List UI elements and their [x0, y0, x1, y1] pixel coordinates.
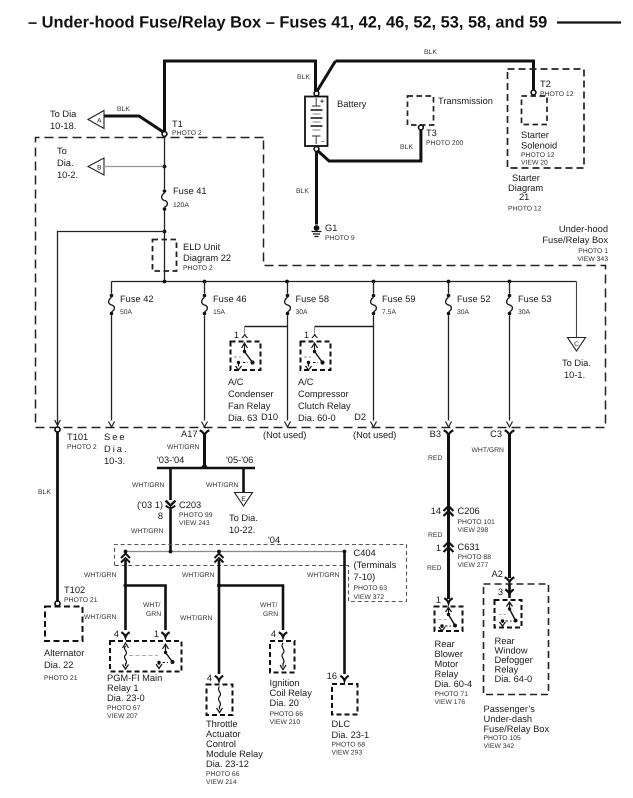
svg-text:C404: C404 — [354, 548, 376, 558]
svg-text:1: 1 — [234, 330, 239, 340]
wire: T1 down to fuse 41 — [164, 137, 166, 190]
svg-text:1: 1 — [304, 330, 309, 340]
fuse 46 — [202, 282, 247, 428]
svg-text:C631: C631 — [458, 542, 480, 552]
svg-text:PHOTO 99: PHOTO 99 — [179, 512, 213, 519]
svg-text:VIEW 277: VIEW 277 — [458, 562, 489, 569]
svg-text:PHOTO 12: PHOTO 12 — [521, 152, 555, 159]
title — [28, 14, 621, 32]
svg-text:VIEW 293: VIEW 293 — [332, 750, 363, 757]
svg-text:7.5A: 7.5A — [382, 309, 396, 316]
svg-text:C206: C206 — [458, 506, 480, 516]
node D2 — [353, 412, 396, 440]
svg-text:Passenger’s: Passenger’s — [484, 704, 536, 714]
svg-text:A: A — [97, 118, 102, 125]
svg-text:To Dia: To Dia — [50, 109, 77, 119]
svg-text:10-2.: 10-2. — [57, 170, 78, 180]
connector C206 — [431, 506, 495, 534]
svg-text:T102: T102 — [64, 585, 85, 595]
under-hood fuse/relay box dashed outline — [36, 138, 606, 428]
svg-text:WHT/: WHT/ — [143, 602, 160, 609]
svg-text:21: 21 — [519, 192, 529, 202]
svg-text:Dia. 23-0: Dia. 23-0 — [107, 693, 145, 703]
svg-text:Dia. 23-12: Dia. 23-12 — [206, 759, 249, 769]
svg-text:+: + — [320, 99, 324, 106]
svg-text:(Not used): (Not used) — [353, 430, 396, 440]
svg-text:30A: 30A — [457, 309, 470, 316]
svg-text:Fuse 52: Fuse 52 — [457, 294, 491, 304]
svg-text:PHOTO 71: PHOTO 71 — [435, 691, 469, 698]
junction node — [123, 583, 127, 587]
svg-text:A17: A17 — [181, 429, 198, 439]
svg-text:C203: C203 — [179, 500, 201, 510]
svg-text:Rear: Rear — [435, 639, 455, 649]
svg-text:1: 1 — [436, 595, 441, 605]
terminal T3 — [419, 125, 464, 147]
04 model year dashed region with C404 — [115, 535, 407, 602]
A17 split bar 03-04 / 05-06 — [157, 455, 255, 468]
terminal B3 — [428, 429, 453, 599]
svg-text:ʹ03-ʹ04: ʹ03-ʹ04 — [157, 455, 184, 465]
svg-text:B: B — [97, 165, 101, 172]
svg-text:To Dia.: To Dia. — [562, 358, 591, 368]
svg-text:VIEW 298: VIEW 298 — [458, 527, 489, 534]
svg-text:30A: 30A — [296, 309, 309, 316]
svg-text:Battery: Battery — [337, 99, 367, 109]
terminal T2 — [531, 79, 574, 98]
svg-text:PHOTO 67: PHOTO 67 — [107, 705, 141, 712]
starter diagram 21 box — [508, 69, 585, 213]
svg-text:PHOTO 200: PHOTO 200 — [426, 140, 463, 147]
wire: down to PGM pin 4 — [124, 586, 127, 631]
wire: down to throttle relay — [218, 586, 221, 675]
svg-text:50A: 50A — [120, 309, 133, 316]
wire: bus to arrow C — [576, 282, 578, 338]
svg-text:4: 4 — [114, 629, 119, 639]
throttle actuator control module relay — [206, 673, 263, 786]
svg-text:PHOTO 12: PHOTO 12 — [540, 91, 574, 98]
wire: battery negative to G1 — [315, 152, 318, 225]
arrow B To Dia 10-2 — [57, 146, 104, 180]
svg-text:4: 4 — [207, 673, 212, 683]
alternator — [44, 607, 84, 683]
svg-text:WHT/GRN: WHT/GRN — [84, 614, 117, 621]
svg-text:RED: RED — [428, 532, 442, 539]
svg-text:BLK: BLK — [38, 489, 51, 496]
svg-text:Dia. 22: Dia. 22 — [44, 660, 73, 670]
svg-text:VIEW 372: VIEW 372 — [354, 594, 385, 601]
svg-text:(ʹ03 1): (ʹ03 1) — [137, 500, 163, 510]
svg-text:A2: A2 — [492, 569, 503, 579]
wire: branch to ignition coil relay — [219, 586, 283, 631]
svg-text:To: To — [57, 146, 67, 156]
svg-text:VIEW 343: VIEW 343 — [577, 256, 608, 263]
wire: left branch 03-04 — [169, 468, 172, 500]
fuse 59 — [371, 282, 416, 428]
svg-text:Starter: Starter — [521, 130, 549, 140]
svg-text:PHOTO 66: PHOTO 66 — [206, 771, 240, 778]
under-hood fuse/relay box label — [542, 224, 608, 263]
svg-text:Alternator: Alternator — [44, 648, 84, 658]
svg-text:PGM-FI Main: PGM-FI Main — [107, 673, 162, 683]
svg-text:T1: T1 — [172, 119, 183, 129]
fuse 42 — [109, 282, 154, 428]
svg-text:PHOTO 21: PHOTO 21 — [64, 597, 98, 604]
svg-text:7-10): 7-10) — [354, 572, 376, 582]
wire: fuse bus — [112, 281, 577, 283]
svg-text:Motor: Motor — [435, 659, 459, 669]
svg-text:VIEW 214: VIEW 214 — [206, 779, 237, 786]
junction nodes on bus — [163, 280, 167, 284]
svg-text:Diagram 22: Diagram 22 — [183, 253, 231, 263]
transmission box — [408, 96, 493, 125]
svg-text:G1: G1 — [325, 223, 337, 233]
rear window defogger relay — [495, 584, 533, 684]
svg-text:Fuse 42: Fuse 42 — [120, 294, 154, 304]
terminal A17 — [167, 429, 209, 468]
svg-text:PHOTO 2: PHOTO 2 — [172, 130, 202, 137]
connector C631 — [436, 542, 491, 569]
svg-text:WHT/GRN: WHT/GRN — [472, 447, 505, 454]
svg-text:Transmission: Transmission — [438, 96, 493, 106]
fuse 52 — [446, 282, 491, 428]
junction node — [217, 583, 221, 587]
svg-text:WHT/GRN: WHT/GRN — [180, 615, 213, 622]
svg-text:WHT/GRN: WHT/GRN — [167, 444, 200, 451]
svg-text:10-18.: 10-18. — [50, 121, 76, 131]
svg-text:14: 14 — [431, 506, 441, 516]
svg-text:D2: D2 — [354, 412, 366, 422]
junction node ELD branch — [163, 230, 167, 234]
ground G1 — [312, 223, 355, 242]
svg-text:RED: RED — [428, 455, 442, 462]
svg-text:See: See — [104, 432, 127, 442]
svg-text:VIEW 176: VIEW 176 — [435, 699, 466, 706]
svg-text:BLK: BLK — [117, 106, 130, 113]
svg-text:VIEW 243: VIEW 243 — [179, 520, 210, 527]
wire: To Dia 10-18 arrow to T1 — [104, 116, 164, 133]
junction nodes on splice — [124, 550, 128, 554]
PGM-FI main relay — [107, 629, 182, 720]
wire: battery to T3 — [318, 130, 421, 161]
svg-text:10-3.: 10-3. — [104, 456, 125, 466]
svg-text:Fuse 58: Fuse 58 — [296, 294, 330, 304]
wire: branch to T101 column — [58, 232, 165, 425]
wire: splice to DLC — [343, 552, 346, 675]
svg-text:PHOTO 1: PHOTO 1 — [578, 248, 608, 255]
DLC — [327, 671, 370, 757]
svg-text:PHOTO 63: PHOTO 63 — [354, 585, 388, 592]
svg-text:ʹ05-ʹ06: ʹ05-ʹ06 — [226, 455, 253, 465]
svg-text:RED: RED — [427, 565, 441, 572]
svg-text:(Not used): (Not used) — [263, 430, 306, 440]
svg-text:Dia.: Dia. — [104, 444, 129, 454]
svg-text:1: 1 — [436, 543, 441, 553]
svg-text:Throttle: Throttle — [206, 719, 238, 729]
svg-text:WHT/: WHT/ — [260, 602, 277, 609]
svg-text:Condenser: Condenser — [228, 389, 273, 399]
svg-text:Relay 1: Relay 1 — [107, 683, 139, 693]
svg-text:8: 8 — [158, 511, 163, 521]
terminal T1 — [162, 119, 202, 137]
svg-text:T3: T3 — [426, 128, 437, 138]
svg-text:E: E — [241, 496, 246, 503]
svg-text:Coil Relay: Coil Relay — [270, 688, 313, 698]
wire: main feed T1 up and across top — [165, 61, 316, 132]
terminal C3 — [472, 429, 515, 578]
svg-text:Relay: Relay — [435, 669, 459, 679]
svg-text:Clutch Relay: Clutch Relay — [298, 401, 351, 411]
A/C condenser fan relay — [228, 327, 288, 424]
svg-text:WHT/GRN: WHT/GRN — [131, 528, 164, 535]
svg-text:ʹ04: ʹ04 — [268, 535, 280, 545]
fuse 41 — [162, 186, 207, 211]
svg-text:VIEW 20: VIEW 20 — [521, 160, 548, 167]
connector drop left (PGM-FI feed) — [84, 554, 130, 586]
svg-text:VIEW 207: VIEW 207 — [107, 713, 138, 720]
wire: gray line B to T1 line — [104, 166, 165, 168]
arrow E To Dia 10-22 — [229, 493, 258, 536]
svg-text:Control: Control — [206, 739, 236, 749]
svg-text:3: 3 — [498, 587, 503, 597]
svg-text:Module Relay: Module Relay — [206, 749, 263, 759]
svg-text:PHOTO 12: PHOTO 12 — [508, 206, 542, 213]
svg-text:Ignition: Ignition — [270, 678, 300, 688]
svg-text:D10: D10 — [261, 412, 278, 422]
svg-text:Dia. 60-4: Dia. 60-4 — [435, 679, 473, 689]
battery — [305, 91, 367, 151]
svg-text:BLK: BLK — [400, 144, 413, 151]
svg-text:To Dia.: To Dia. — [229, 513, 258, 523]
svg-text:Fan Relay: Fan Relay — [228, 401, 271, 411]
svg-text:Relay: Relay — [495, 665, 519, 675]
svg-text:Dia. 63: Dia. 63 — [228, 413, 257, 423]
svg-text:WHT/GRN: WHT/GRN — [132, 482, 165, 489]
wire: C203 down to 04 splice — [169, 509, 172, 550]
svg-text:Under-dash: Under-dash — [484, 714, 533, 724]
svg-text:PHOTO 2: PHOTO 2 — [67, 444, 97, 451]
terminal T102 — [55, 585, 98, 606]
terminal T101 — [55, 420, 97, 451]
svg-text:VIEW 210: VIEW 210 — [270, 719, 301, 726]
svg-text:Fuse/Relay Box: Fuse/Relay Box — [484, 724, 550, 734]
svg-text:Dia. 60-0: Dia. 60-0 — [298, 413, 336, 423]
svg-text:– Under-hood Fuse/Relay Box –: – Under-hood Fuse/Relay Box – Fuses 41, … — [28, 14, 547, 32]
ELD unit box — [153, 240, 232, 273]
svg-text:PHOTO 2: PHOTO 2 — [183, 265, 213, 272]
svg-text:WHT/GRN: WHT/GRN — [182, 572, 215, 579]
svg-text:C: C — [574, 341, 579, 348]
svg-text:PHOTO 66: PHOTO 66 — [270, 711, 304, 718]
svg-text:Actuator: Actuator — [206, 729, 241, 739]
svg-text:10-1.: 10-1. — [564, 370, 585, 380]
svg-text:16: 16 — [327, 671, 337, 681]
svg-text:B3: B3 — [430, 429, 441, 439]
connector C203 — [137, 500, 213, 527]
wire: T101 to T102 — [56, 432, 59, 601]
svg-text:Fuse 41: Fuse 41 — [173, 186, 207, 196]
svg-text:PHOTO 21: PHOTO 21 — [44, 675, 78, 682]
svg-text:A/C: A/C — [298, 377, 314, 387]
svg-text:Fuse 53: Fuse 53 — [518, 294, 552, 304]
wire: branch to PGM pin 1 — [126, 586, 166, 631]
svg-text:Fuse 46: Fuse 46 — [213, 294, 247, 304]
svg-text:BLK: BLK — [296, 188, 309, 195]
wire: right branch 05-06 — [242, 468, 245, 492]
svg-text:Under-hood: Under-hood — [559, 224, 608, 234]
passenger's under-dash fuse/relay box — [484, 584, 550, 750]
arrow C To Dia 10-1 — [562, 338, 591, 381]
svg-text:A/C: A/C — [228, 377, 244, 387]
svg-text:Fuse/Relay Box: Fuse/Relay Box — [542, 235, 608, 245]
arrow A To Dia 10-18 — [50, 109, 104, 131]
wire: battery to T2 top bus — [317, 61, 534, 92]
svg-text:BLK: BLK — [297, 74, 310, 81]
svg-text:C3: C3 — [490, 429, 502, 439]
svg-text:Compressor: Compressor — [298, 389, 349, 399]
svg-text:WHT/GRN: WHT/GRN — [206, 482, 239, 489]
label see dia 10-3 — [104, 432, 129, 466]
svg-text:Window: Window — [495, 646, 528, 656]
svg-text:GRN: GRN — [263, 611, 278, 618]
svg-text:BLK: BLK — [424, 49, 437, 56]
rear blower motor relay — [435, 595, 473, 706]
svg-text:1: 1 — [154, 629, 159, 639]
svg-text:10-22.: 10-22. — [229, 525, 255, 535]
svg-text:PHOTO 88: PHOTO 88 — [458, 554, 492, 561]
node D10 — [261, 412, 306, 440]
wire: fuse 41 down to bus — [164, 211, 166, 283]
ignition coil relay — [270, 629, 313, 726]
svg-text:Fuse 59: Fuse 59 — [382, 294, 416, 304]
wire: 04 splice line — [126, 551, 345, 553]
svg-text:GRN: GRN — [146, 611, 161, 618]
svg-text:DLC: DLC — [332, 719, 351, 729]
svg-text:30A: 30A — [518, 309, 531, 316]
svg-text:VIEW 342: VIEW 342 — [484, 743, 515, 750]
svg-text:Dia. 23-1: Dia. 23-1 — [332, 730, 370, 740]
svg-text:Blower: Blower — [435, 649, 463, 659]
fuse 58 — [285, 282, 330, 428]
svg-text:Rear: Rear — [495, 636, 515, 646]
svg-text:T2: T2 — [540, 79, 551, 89]
svg-text:Starter: Starter — [512, 173, 540, 183]
svg-text:Solenoid: Solenoid — [521, 141, 557, 151]
svg-text:WHT/GRN: WHT/GRN — [84, 572, 117, 579]
svg-text:120A: 120A — [173, 202, 189, 209]
svg-text:PHOTO 68: PHOTO 68 — [332, 742, 366, 749]
svg-text:PHOTO 101: PHOTO 101 — [458, 519, 495, 526]
svg-text:PHOTO 105: PHOTO 105 — [484, 735, 521, 742]
svg-text:Dia. 64-0: Dia. 64-0 — [495, 674, 533, 684]
svg-text:ELD Unit: ELD Unit — [183, 242, 221, 252]
junction node — [163, 165, 167, 169]
svg-text:Dia.: Dia. — [57, 158, 74, 168]
fuse 53 — [507, 282, 552, 428]
svg-text:4: 4 — [271, 629, 276, 639]
connector drop middle (throttle/ignition feed) — [182, 554, 224, 586]
svg-text:Defogger: Defogger — [495, 655, 533, 665]
terminal A2 — [492, 569, 515, 582]
svg-text:(Terminals: (Terminals — [354, 560, 397, 570]
svg-text:Dia. 20: Dia. 20 — [270, 698, 299, 708]
starter solenoid box — [521, 96, 557, 167]
svg-text:15A: 15A — [213, 309, 226, 316]
svg-text:WHT/GRN: WHT/GRN — [307, 572, 340, 579]
A/C compressor clutch relay — [298, 327, 374, 424]
svg-text:T101: T101 — [67, 432, 88, 442]
svg-text:PHOTO 9: PHOTO 9 — [325, 235, 355, 242]
